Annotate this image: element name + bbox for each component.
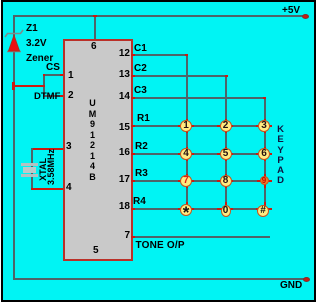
node key5 nubs: [217, 153, 233, 155]
key 1: [180, 120, 192, 132]
wire XTAL bracket to pin4: [31, 188, 63, 190]
pin 14: [119, 91, 130, 102]
crystal XTAL plate top: [21, 163, 38, 166]
key hash: [257, 205, 269, 217]
label Z1: [26, 23, 38, 34]
node C1 bend: [185, 54, 188, 56]
pin 15: [119, 122, 130, 133]
node key6 nubs: [256, 153, 272, 155]
label +5V: [282, 5, 300, 16]
node +5V terminal: [302, 14, 309, 19]
node pin7 nub: [131, 236, 135, 238]
node C2xC3 crossing: [225, 97, 227, 99]
label 3.58MHz: [46, 149, 56, 185]
label DTMF: [34, 91, 60, 102]
wire R2 row: [131, 153, 265, 155]
node C1 pin nub: [131, 54, 135, 56]
key 7 pressed: [180, 175, 192, 187]
label CS: [46, 62, 60, 73]
node C2 bend: [225, 75, 228, 77]
pin 5: [93, 245, 99, 256]
wire R4 row: [131, 208, 265, 210]
node key8 nubs: [217, 180, 233, 182]
label C1: [134, 43, 147, 54]
wire pin6 drop: [94, 15, 96, 40]
wire C2 column vertical: [225, 75, 227, 211]
node C1xC3 crossing: [186, 97, 188, 99]
zener diode Z1: [2, 26, 30, 56]
pin 13: [119, 69, 130, 80]
wire CS feed: [14, 85, 44, 87]
wire C1 column vertical: [186, 54, 188, 210]
label TONE O/P: [136, 240, 185, 251]
wire TONE O/P pin7: [131, 236, 270, 238]
label XTAL: [38, 158, 48, 181]
node key4 nubs: [178, 153, 194, 155]
pin 2: [68, 90, 74, 101]
wire C2 horizontal: [131, 75, 226, 77]
node C1xC2 crossing: [186, 75, 188, 77]
wire XTAL bracket to pin3: [31, 148, 63, 150]
label R3: [135, 168, 148, 179]
wire CS bracket to pin2: [43, 95, 63, 97]
key 6: [258, 148, 270, 160]
node key-star nubs: [178, 208, 194, 210]
pin 12: [119, 48, 130, 59]
node key0 nubs: [217, 208, 233, 210]
wire CS bracket vertical: [43, 74, 45, 97]
wire bottom GND: [13, 278, 305, 280]
wire R3 row: [131, 180, 265, 182]
pin 6: [91, 41, 97, 52]
pin 3: [66, 141, 72, 152]
node C3 pin nub: [131, 97, 135, 99]
node pin1 nub: [60, 74, 64, 76]
node pin2 nub: [60, 95, 64, 97]
node key9 nubs: [257, 180, 272, 182]
pin 17: [119, 174, 130, 185]
node R2 pin nub: [131, 153, 135, 155]
node R1 pin nub: [131, 125, 135, 127]
pin 18: [119, 201, 130, 212]
node junction +5V/pin6: [93, 15, 97, 17]
label C2: [134, 63, 147, 74]
key 5: [220, 148, 232, 160]
label R4: [133, 196, 146, 207]
crystal XTAL plate bottom: [21, 174, 38, 177]
node key1 nubs: [178, 125, 194, 127]
pin 4: [66, 182, 72, 193]
IC U1 UM91214B body: [63, 39, 133, 261]
wire CS bracket to pin1: [43, 74, 63, 76]
pin 7: [124, 230, 130, 241]
wire C3 column vertical: [264, 97, 266, 211]
key 4: [180, 148, 192, 160]
pin 1: [68, 70, 74, 81]
node key2 nubs: [217, 125, 233, 127]
wire C3 horizontal: [131, 97, 265, 99]
pin 16: [119, 147, 130, 158]
node key7 nubs: [178, 180, 194, 182]
key 8: [220, 175, 232, 187]
node C2 pin nub: [131, 75, 135, 77]
label GND: [280, 280, 302, 291]
node R3 pin nub: [131, 180, 135, 182]
key 3: [258, 120, 270, 132]
node key3 nubs: [256, 125, 272, 127]
key 2: [220, 120, 232, 132]
node CS bracket junction mid: [43, 85, 45, 87]
wire C1 horizontal: [131, 54, 187, 56]
label R1: [137, 113, 150, 124]
wire +5V supply top: [13, 15, 303, 17]
wire left vertical: [13, 15, 15, 280]
key 0: [221, 205, 231, 217]
wire R1 row: [131, 125, 265, 127]
node GND terminal: [303, 277, 310, 282]
key 9 pressed: [260, 176, 269, 185]
node R4 pin nub: [131, 208, 135, 210]
crystal XTAL body: [23, 167, 36, 173]
node CS tap on left rail: [12, 82, 15, 90]
key star: [180, 204, 192, 216]
label KEYPAD vertical: [274, 125, 287, 187]
label 3.2V: [26, 38, 47, 49]
wire XTAL bracket vertical: [31, 148, 33, 189]
label IC part number: [85, 98, 100, 182]
label Zener: [26, 53, 53, 64]
label C3: [134, 85, 147, 96]
node C3 bend: [263, 97, 266, 99]
node key-hash nubs: [256, 208, 272, 210]
label R2: [135, 141, 148, 152]
node CS bracket corner top: [43, 74, 45, 76]
